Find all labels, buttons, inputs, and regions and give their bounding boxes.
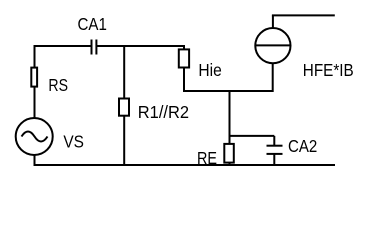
current source HFE*IB chord (255, 44, 290, 46)
wire RE bottom stub to bottom rail (229, 163, 231, 165)
wire RS to VS source (34, 87, 36, 118)
resistor Hie (179, 49, 189, 67)
wire top-middle horizontal from CA1 right plate to Hie corner (97, 45, 186, 47)
svg-text:HFE*IB: HFE*IB (303, 60, 354, 80)
wire top-left horizontal from left rail to CA1 left plate (34, 45, 92, 47)
resistor RS (31, 68, 37, 87)
resistor R1//R2 (119, 99, 129, 116)
wire current source bottom stub (272, 64, 274, 93)
svg-text:R1//R2: R1//R2 (138, 102, 189, 122)
wire current source top stub (272, 15, 274, 28)
resistor RE (224, 144, 234, 163)
wire bottom rail (34, 164, 336, 166)
wire VS bottom stub (34, 155, 36, 166)
svg-text:RE: RE (197, 148, 217, 168)
svg-text:CA1: CA1 (78, 14, 107, 34)
wire R1//R2 bottom stub to bottom rail (123, 117, 125, 166)
wire CA2 branch horizontal (229, 135, 275, 137)
current source HFE*IB circle (255, 28, 290, 63)
capacitor CA1 plates (92, 40, 97, 55)
wire RE branch down from mid wire (229, 91, 231, 144)
capacitor CA2 plates (267, 146, 283, 154)
wire Hie corner vertical into resistor top (183, 46, 185, 49)
svg-text:Hie: Hie (198, 60, 221, 80)
wire CA2 top stub (273, 136, 275, 146)
svg-text:VS: VS (63, 132, 84, 152)
wire middle horizontal from Hie bottom to current source bottom (184, 90, 273, 92)
svg-text:RS: RS (48, 75, 68, 95)
wire Hie bottom stub (183, 69, 185, 93)
svg-text:CA2: CA2 (288, 136, 317, 156)
wire R1//R2 branch down from top wire (123, 46, 125, 98)
source VS sine wave (22, 132, 48, 142)
wire top-right horizontal output (272, 14, 335, 16)
wire left rail vertical down to RS (34, 45, 36, 68)
source VS circle (16, 118, 53, 155)
wire CA2 bottom stub (273, 154, 275, 166)
